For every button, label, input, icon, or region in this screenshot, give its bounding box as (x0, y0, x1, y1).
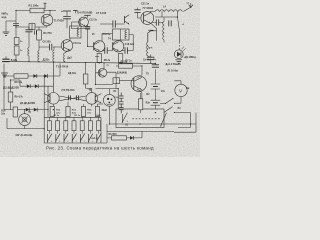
lamp L2 (19, 114, 31, 126)
label C13 (73, 42, 81, 45)
label Л2 (28, 111, 31, 114)
wire top-left supply bus (16, 10, 56, 12)
wire cap row stub (95, 56, 99, 58)
resistor R11b (50, 107, 54, 117)
wire R9 stems (10, 80, 12, 110)
ground LED (175, 60, 182, 63)
resistor R6 (97, 54, 101, 63)
label R20 (146, 103, 151, 105)
inductor Dr3 (147, 42, 151, 57)
resistor Rk5 (80, 117, 84, 133)
label C6 220 (43, 41, 52, 44)
switch S1 (160, 98, 175, 104)
wire T6m emitter (91, 105, 93, 107)
wire R2 leads (116, 66, 142, 75)
wire T6 collector (137, 75, 142, 78)
resistor R2 divider (14, 38, 23, 45)
label input ВЧ (2, 13, 9, 20)
diode D4 (35, 84, 38, 88)
capacitor C16 stack (119, 93, 124, 114)
wire left rail (15, 11, 17, 62)
capacitor C24 (147, 57, 154, 59)
wire battery rail (154, 63, 156, 84)
inductor Dr1b (53, 47, 54, 62)
label Т6 big (146, 73, 150, 76)
resistor R3 divider (14, 46, 23, 55)
wire main bus (2, 61, 155, 63)
battery B1 cells (151, 84, 161, 105)
diode D5 (26, 108, 29, 112)
wire voltmeter top (174, 81, 181, 84)
wire T6 emitter (137, 89, 142, 99)
caption (46, 146, 154, 151)
wire long bottom bus (109, 124, 196, 132)
capacitor C5 big (2, 56, 9, 61)
wire diode row1 (4, 63, 60, 76)
label Т1 П416 (54, 18, 65, 22)
switch Кн6 (88, 134, 93, 143)
wire T6m collector (89, 88, 92, 92)
antenna tick top (43, 3, 46, 9)
label R12 (56, 110, 61, 115)
wire input stub (6, 21, 16, 32)
wire T5m emitter (52, 104, 54, 106)
label Сн-50 (143, 60, 157, 62)
wire inner loop (178, 113, 196, 128)
inductor L4 (155, 10, 183, 12)
transistor T5m (44, 93, 59, 105)
label 6,3в (102, 110, 108, 112)
wire Dr3 top (148, 30, 157, 42)
wire lamp feed (7, 118, 44, 129)
wire rf rail (156, 31, 158, 41)
wire keyboard left edge (43, 117, 45, 143)
resistor Rk3 (64, 117, 68, 133)
wire keyboard bottom bus (44, 142, 101, 144)
capacitor C18 (125, 47, 127, 54)
capacitor cross A (69, 95, 71, 100)
wire T3 base (88, 45, 94, 47)
wire ZQ2 to T6 base (120, 80, 134, 82)
ground input (3, 32, 10, 35)
resistor R16 (13, 107, 17, 117)
label R7 1к (125, 60, 132, 63)
wire lamp L1 top (108, 89, 110, 95)
label С21 1н (141, 3, 150, 6)
antenna W1 (187, 2, 194, 7)
wire T2b collector (86, 16, 89, 18)
wire T5 emitter diag (150, 23, 156, 31)
resistor R9 (8, 92, 13, 102)
resistor Rk6 (88, 117, 92, 133)
wire keyboard top bus (44, 116, 101, 118)
dashed link (132, 118, 160, 120)
wire cross 2 (59, 96, 86, 101)
diode D2 (44, 74, 47, 78)
ground left small (1, 73, 8, 77)
label R6 2к (104, 59, 111, 62)
label Др2 (67, 57, 72, 60)
wire antenna lead (184, 3, 191, 11)
label П13,14 (62, 89, 92, 92)
label Д223Б (43, 59, 51, 62)
label R17 200 (109, 134, 118, 136)
label R16 10к (1, 111, 6, 116)
inductor L6 (163, 17, 164, 43)
inductor Dr0 (28, 48, 29, 62)
label Тр-к (148, 47, 153, 49)
label С18 12л (125, 43, 135, 46)
diode D3 (27, 84, 30, 88)
wire C6 link (39, 46, 61, 47)
transistor T1 (41, 14, 53, 26)
label R14к (54, 115, 102, 117)
coil L3 inside (77, 27, 79, 36)
wire T4e base lead (95, 63, 113, 84)
wire diode row3 (4, 76, 48, 117)
wire mod bottom (95, 84, 118, 109)
label Т4 (108, 38, 111, 41)
label Д1-Д8 (3, 87, 19, 90)
label C7 0,015 (96, 12, 107, 15)
wire T4 collector (120, 40, 122, 42)
diode D6 (34, 108, 37, 112)
switch contact end (96, 134, 101, 143)
label R4 750 (43, 31, 52, 35)
wire keyboard right edge (100, 117, 102, 143)
diode D1 (33, 74, 36, 78)
wire lamp L1 bottom (108, 106, 110, 124)
relay box (116, 109, 164, 128)
resistor Rk2 (56, 117, 60, 133)
wire T2 emitter (65, 50, 70, 53)
wire left rail low (3, 64, 5, 110)
capacitor C7 (113, 20, 115, 27)
wire T5 base (138, 14, 141, 18)
wire R20 stems (140, 93, 142, 113)
wire mid bus y24 (100, 23, 125, 25)
wire T5 collector (150, 11, 155, 13)
wire emitter bus y27 (16, 26, 47, 27)
resistor Rk4 (72, 117, 76, 133)
relay contact right (160, 113, 166, 127)
label В1 (178, 107, 182, 110)
shield box (112, 29, 129, 40)
label R8 13к (15, 81, 23, 84)
capacitor C2 branch (63, 11, 71, 28)
transistor T6 big (131, 76, 147, 92)
wire Dr3 to bus (150, 54, 152, 63)
label С12 (89, 19, 97, 22)
resistor R14 (95, 107, 99, 117)
resistor R17 (107, 136, 127, 140)
wire R11 stems (86, 63, 91, 89)
wire T1 collector (49, 11, 51, 15)
wire T3 collector (102, 34, 112, 42)
wire bus to T4e (103, 63, 105, 69)
wire line B (101, 124, 174, 143)
resistor R4 (37, 30, 42, 40)
label С12 2н (103, 33, 111, 36)
crystal ZQ2 (113, 78, 120, 84)
switch Кн3 (64, 134, 69, 143)
label Д5-Д8 (20, 102, 35, 105)
relay armature (122, 113, 128, 123)
transistor T2 (61, 40, 73, 52)
capacitor C9 dark (85, 25, 90, 47)
switch Кн4 (72, 134, 77, 143)
label 9в (186, 88, 190, 90)
label L4 (163, 5, 167, 8)
label R2 5к (121, 60, 128, 63)
label Л1 (113, 90, 117, 93)
label Л1 10-6м (168, 70, 178, 73)
resistor R13 (81, 107, 85, 117)
label Б2 (146, 91, 165, 96)
label R14 (87, 109, 92, 115)
wire T2b base (72, 22, 88, 29)
lamp L1 (103, 94, 115, 106)
transistor T2b (79, 17, 89, 27)
wire diag to LED rail (178, 17, 180, 42)
label 15 (92, 33, 95, 36)
wire T2 collector (69, 38, 71, 41)
capacitor C1 rail (13, 23, 19, 25)
capacitor C23 (169, 20, 171, 26)
diode D10 (127, 131, 143, 139)
label bus note (16, 134, 33, 137)
label R1 100к (29, 3, 40, 7)
label Б1 (125, 124, 128, 127)
resistor R11 (83, 74, 88, 84)
switch Кн5 (80, 134, 85, 143)
resistor R7 (118, 54, 122, 63)
tank box L3 (70, 26, 81, 38)
capacitor C8 bar (84, 14, 90, 16)
capacitor C6 (49, 44, 51, 51)
resistor R12 (66, 107, 70, 117)
voltmeter V1 (175, 84, 187, 96)
label R13 (72, 110, 77, 115)
capacitor C3 (25, 27, 32, 48)
label С16 (114, 97, 120, 99)
resistor Rk1 (47, 117, 51, 133)
wire T4e out (107, 72, 116, 78)
coil L5 inside (125, 30, 127, 39)
wire voltmeter bottom (175, 97, 181, 104)
wire mv res stems (52, 102, 103, 118)
wire R4 down (38, 40, 40, 51)
wire diode row2 (11, 80, 48, 86)
wire T5m collector (47, 62, 53, 92)
label R9 4,7к (15, 96, 24, 99)
label КД-33х (68, 72, 77, 75)
label С5 33 (11, 59, 18, 62)
capacitor C22 (152, 19, 163, 25)
resistor R4 branch (38, 27, 40, 30)
transistor T3 (94, 41, 105, 52)
wire lamp stems (24, 110, 26, 129)
capacitor C25 (152, 65, 159, 67)
capacitor C20 (134, 8, 140, 15)
inductor Dr2 (63, 53, 64, 62)
label plus1 (182, 24, 185, 26)
label Кн1-6 (92, 138, 99, 140)
capacitor C4 (35, 30, 37, 34)
transistor T4e (98, 68, 107, 77)
resistor R2 5к (119, 64, 133, 68)
label Д14 (117, 72, 127, 75)
switch S2 (163, 107, 191, 114)
transistor T4 (113, 41, 124, 52)
label ГУ-ЧБА (143, 7, 154, 10)
resistor R8 (14, 74, 28, 78)
transistor T5 (141, 12, 154, 25)
transistor T6m (86, 93, 101, 105)
resistor R1 (30, 8, 44, 13)
capacitor C15 (105, 47, 107, 54)
wire L4 tap down (155, 11, 177, 17)
LED D9 (174, 47, 185, 59)
label Д9 ЛЕД (184, 57, 197, 59)
label Т1-5 П416 (56, 64, 69, 68)
wire dashed to LED (178, 42, 180, 50)
label Др1-4 (166, 63, 182, 66)
switch Кн1 (47, 134, 52, 143)
wire battery bottom (155, 105, 163, 112)
label Т3-6 П15А (77, 12, 93, 15)
label Т5 mod (106, 65, 109, 67)
switch Кн2 (55, 134, 60, 143)
transistor T5a bare (125, 15, 130, 25)
inductor Dr1 (38, 51, 39, 62)
capacitor cross B (77, 95, 79, 100)
crystal ZQ (29, 24, 35, 30)
resistor Rk7 (97, 117, 101, 133)
capacitor top mid stub (73, 10, 78, 13)
wire cross 1 (59, 96, 86, 101)
wire T3-T4 link (102, 50, 113, 52)
wire T4 emitter link (121, 35, 133, 51)
resistor R20 (138, 99, 142, 110)
